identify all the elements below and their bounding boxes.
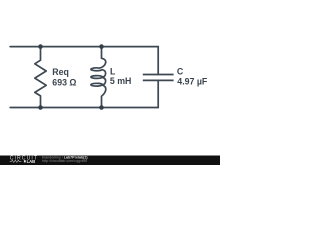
footer logo zigzag <box>10 160 22 162</box>
svg-text:C: C <box>177 67 184 77</box>
svg-text:4.97 µF: 4.97 µF <box>177 76 208 86</box>
inductor L <box>91 47 106 108</box>
svg-text:5 mH: 5 mH <box>110 76 132 86</box>
svg-text:http·//circuitlab.com/cqgvb6f: http·//circuitlab.com/cqgvb6f <box>42 159 87 163</box>
footer watermark bar <box>0 156 220 166</box>
footer logo plug box <box>24 160 26 162</box>
node junction top-middle <box>99 44 104 49</box>
node junction top-left <box>38 44 43 49</box>
wire right vertical lower (from capacitor) <box>157 81 159 108</box>
wire right vertical upper (to capacitor) <box>157 47 159 75</box>
svg-text:L: L <box>110 67 116 77</box>
svg-text:Req: Req <box>52 67 69 77</box>
capacitor C <box>143 75 174 81</box>
wire top rail <box>10 46 158 48</box>
svg-text:693 Ω: 693 Ω <box>52 78 76 88</box>
node junction bottom-left <box>38 105 43 110</box>
svg-text:LAB: LAB <box>27 159 36 164</box>
resistor Req <box>35 47 46 108</box>
node junction bottom-middle <box>99 105 104 110</box>
wire bottom rail <box>10 107 158 109</box>
